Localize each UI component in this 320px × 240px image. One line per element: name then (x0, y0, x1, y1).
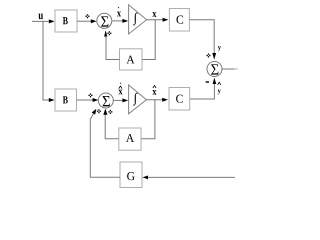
block G (120, 162, 142, 188)
block B1 (55, 10, 77, 32)
integrator I2 (129, 85, 147, 114)
block C2 (169, 88, 190, 111)
wire A2 to sum S3 bottom (105, 114, 119, 139)
block A1 (120, 49, 143, 70)
wire feedback into G right (148, 176, 235, 178)
wire S3 to I2 (113, 99, 123, 101)
wire G output to sum S3 (90, 114, 120, 177)
plus S2 top (207, 54, 211, 58)
wire C1 to sum S2 top (189, 20, 214, 54)
wire I1 to C1 (147, 19, 164, 21)
plus S1 left (86, 14, 90, 18)
summing junction S3 (98, 93, 113, 108)
wire A1 to sum S1 bottom (106, 36, 120, 60)
wire u branch down to B2 (43, 21, 50, 100)
wire C2 to sum S2 bottom (190, 84, 215, 99)
node u label (38, 14, 43, 20)
block C1 (169, 9, 189, 32)
node yhat label (218, 90, 221, 95)
summing junction S2 (207, 62, 222, 77)
plus S3 bottom left (97, 109, 101, 113)
minus S2 bottom (206, 81, 209, 82)
plus S3 bottom right (108, 110, 112, 114)
plus S3 left (89, 93, 93, 97)
wire xhat branch down to A2 (141, 100, 155, 139)
block A2 (119, 128, 141, 150)
wire S2 output stub (222, 68, 234, 70)
node xdot label (117, 12, 121, 17)
integrator I1 (129, 5, 147, 34)
node xhat label (152, 90, 156, 95)
wire u to B1 (32, 20, 49, 22)
node x label (152, 12, 156, 17)
node y label (218, 46, 221, 51)
wire B2 to sum S3 (77, 99, 94, 101)
wire B1 to sum S1 (77, 20, 92, 22)
plus S1 bottom (107, 31, 111, 35)
block B2 (55, 89, 77, 111)
wire x branch down to A1 (142, 20, 155, 60)
wire S1 to I1 (112, 20, 123, 22)
wire I2 to C2 (146, 99, 162, 101)
summing junction S1 (97, 13, 112, 28)
node xhatdot label (118, 90, 122, 95)
